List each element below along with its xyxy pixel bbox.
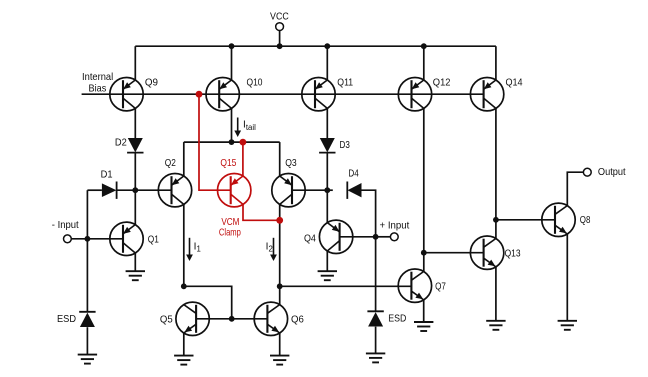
- svg-text:Q7: Q7: [435, 282, 446, 293]
- transistor Q6: [254, 302, 287, 335]
- wire Q4 base link: [340, 236, 376, 238]
- junction minus input node: [85, 236, 91, 242]
- junction I2 node: [277, 283, 283, 289]
- current arrow I2: [270, 238, 277, 261]
- diode ESD left: [79, 312, 95, 327]
- terminal output: [583, 168, 591, 176]
- wire node B to Q4 emitter: [326, 190, 328, 222]
- svg-text:Q9: Q9: [145, 78, 158, 89]
- wire red tail tap to Q15 emitter: [242, 142, 244, 176]
- svg-text:D2: D2: [115, 137, 127, 148]
- wire plus input stub: [376, 236, 391, 238]
- ground under Q7: [414, 322, 433, 331]
- wire node A to Q1 emitter: [134, 190, 136, 224]
- svg-text:D4: D4: [348, 168, 359, 179]
- wire I2 node to Q7 base: [280, 285, 412, 287]
- wire D2 to node A: [134, 153, 136, 190]
- wire Q8 collector to output: [567, 172, 583, 205]
- wire Q3 base link: [292, 189, 327, 191]
- transistor Q9: [110, 78, 143, 111]
- wire Q2 collector to I1 node: [183, 204, 185, 286]
- svg-text:Q5: Q5: [160, 315, 173, 326]
- ground under right ESD: [366, 353, 385, 362]
- svg-text:Q6: Q6: [291, 315, 304, 326]
- wire D3 to node B: [326, 153, 328, 190]
- wire Q4 collector to ground: [326, 251, 328, 271]
- wire Q8 base link: [496, 219, 555, 221]
- ground under Q4: [318, 271, 337, 280]
- junction rail-VCC: [277, 43, 283, 49]
- wire Q5 collector tie: [184, 286, 232, 319]
- wire Q3 collector to I2 node: [279, 204, 281, 304]
- wire Q10 emitter drop: [231, 46, 233, 80]
- wire Q9 collector to D2: [134, 108, 136, 138]
- svg-text:ESD: ESD: [57, 314, 76, 325]
- svg-text:Bias: Bias: [89, 83, 107, 94]
- wire Q9 emitter drop: [134, 46, 136, 80]
- diode D1: [102, 182, 117, 199]
- svg-text:Q14: Q14: [506, 78, 523, 89]
- svg-text:I1: I1: [194, 241, 201, 253]
- wire minus input to Q1 base: [87, 238, 123, 240]
- wire Q13 base link: [424, 252, 484, 254]
- svg-text:Q3: Q3: [285, 158, 297, 169]
- junction node B: [324, 187, 330, 193]
- svg-text:Q4: Q4: [304, 234, 316, 245]
- diode D3: [319, 138, 335, 153]
- junction red VCM node: [276, 217, 283, 224]
- junction rail-Q11: [324, 43, 330, 49]
- transistor Q13: [470, 236, 503, 269]
- ground under Q1: [126, 271, 145, 280]
- wire D1 to Q2 base: [117, 189, 172, 191]
- transistor Q8: [542, 203, 575, 236]
- transistor Q2: [158, 174, 191, 207]
- wire Q6 emitter to ground: [279, 333, 281, 356]
- ground under Q13: [486, 321, 505, 330]
- wire Q14 collector drop: [495, 108, 497, 238]
- wire Q5-Q6 base link: [196, 318, 267, 320]
- svg-text:- Input: - Input: [52, 220, 79, 231]
- svg-text:VCC: VCC: [270, 12, 289, 23]
- svg-text:Internal: Internal: [82, 72, 113, 83]
- wire plus-input riser to ESD: [375, 237, 377, 311]
- junction node A: [132, 187, 138, 193]
- ground under Q5: [174, 356, 193, 365]
- wire Q7 emitter to ground: [423, 300, 425, 322]
- wire tail bus: [184, 141, 280, 143]
- wire Q13 emitter to ground: [495, 267, 497, 321]
- wire red bias tap to Q15 base: [199, 94, 231, 190]
- junction red tail tap: [240, 139, 247, 146]
- diode D4: [347, 182, 361, 199]
- junction tail node: [229, 139, 235, 145]
- wire Q12 collector drop: [423, 108, 425, 271]
- wire Q11 collector to D3: [326, 108, 328, 138]
- svg-text:+ Input: + Input: [380, 220, 410, 231]
- svg-text:Q2: Q2: [165, 158, 176, 169]
- transistor Q11: [302, 78, 335, 111]
- wire Q14 emitter drop: [495, 46, 497, 80]
- svg-text:Q10: Q10: [247, 78, 263, 89]
- transistor Q1: [110, 222, 143, 255]
- svg-text:Q1: Q1: [148, 235, 159, 246]
- svg-text:Itail: Itail: [243, 120, 256, 132]
- current arrow Itail: [234, 118, 241, 138]
- junction rail-Q12: [421, 43, 427, 49]
- junction rail-Q10: [229, 43, 235, 49]
- diode D2: [127, 138, 143, 153]
- wire VCC stub: [279, 30, 281, 46]
- ground under Q6: [270, 356, 289, 365]
- junction plus input node: [373, 234, 379, 240]
- svg-text:I2: I2: [266, 241, 273, 253]
- svg-text:Q8: Q8: [580, 215, 591, 226]
- svg-text:D3: D3: [340, 140, 351, 151]
- transistor Q4: [319, 220, 352, 253]
- transistor Q15: [218, 174, 251, 207]
- junction I1 node: [181, 283, 187, 289]
- wire Q1 collector to ground: [134, 253, 136, 271]
- wire Q10 collector drop: [231, 108, 233, 142]
- terminal minus input: [64, 235, 72, 243]
- wire Q8 emitter to ground: [566, 234, 568, 321]
- terminal VCC: [276, 23, 284, 31]
- wire Q2 emitter drop: [183, 142, 185, 176]
- transistor Q10: [206, 78, 239, 111]
- wire Q3 emitter drop: [279, 142, 281, 176]
- junction red bias tap: [196, 91, 203, 98]
- transistor Q12: [398, 78, 431, 111]
- wire ESD right to ground: [375, 327, 377, 354]
- transistor Q3: [272, 174, 305, 207]
- wire red Q15 collector to VCM node: [243, 204, 280, 220]
- svg-text:Q13: Q13: [505, 249, 521, 260]
- transistor Q5: [176, 302, 209, 335]
- terminal plus input: [390, 233, 398, 241]
- wire minus-input riser: [86, 190, 88, 312]
- transistor Q14: [470, 78, 503, 111]
- svg-text:Q11: Q11: [337, 78, 353, 89]
- wire Q5 emitter to ground: [183, 333, 185, 356]
- wire ESD left to ground: [86, 327, 88, 354]
- svg-text:ESD: ESD: [388, 313, 406, 324]
- junction Q7 collector node: [421, 250, 427, 256]
- wire Q12 emitter drop: [423, 46, 425, 80]
- svg-text:Q15: Q15: [220, 158, 236, 169]
- svg-text:Q12: Q12: [433, 78, 451, 89]
- wire D1 left leg: [87, 189, 102, 191]
- transistor Q7: [398, 269, 431, 302]
- wire VCC rail: [135, 45, 496, 47]
- wire minus input stub: [71, 238, 87, 240]
- svg-text:Clamp: Clamp: [219, 227, 241, 238]
- ground under left ESD: [78, 355, 97, 364]
- junction Q5-Q6 base node: [229, 316, 235, 322]
- wire internal bias line: [82, 93, 484, 95]
- svg-text:D1: D1: [101, 170, 113, 181]
- wire Q11 emitter drop: [326, 46, 328, 80]
- svg-text:Output: Output: [598, 167, 626, 178]
- wire D4 to plus-input riser: [362, 190, 376, 237]
- diode ESD right: [367, 311, 383, 326]
- svg-text:VCM: VCM: [221, 217, 239, 228]
- wire node B to D4: [327, 189, 333, 191]
- junction Q8 base node: [493, 217, 499, 223]
- current arrow I1: [186, 238, 193, 261]
- ground under Q8: [558, 321, 577, 330]
